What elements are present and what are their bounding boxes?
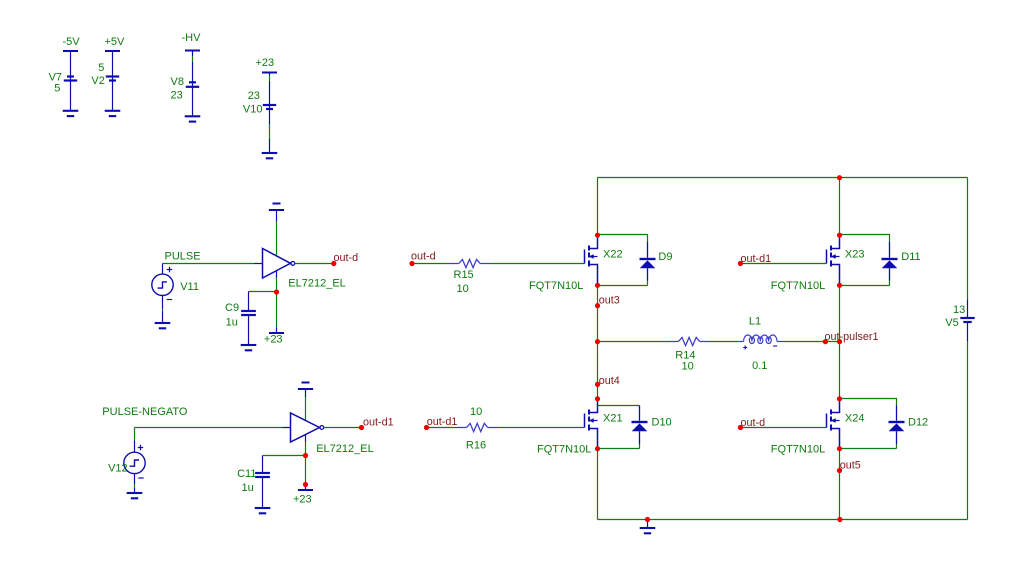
svg-text:V10: V10 (243, 104, 263, 116)
wire (134, 473, 136, 493)
op-amp U1 EL7212_EL (263, 249, 346, 290)
svg-text:out-d: out-d (411, 251, 436, 263)
wire (324, 427, 362, 429)
inductor L1 (739, 316, 784, 372)
wire (162, 295, 164, 323)
wire D10 bottom (639, 431, 641, 444)
svg-text:PULSE-NEGATO: PULSE-NEGATO (102, 406, 188, 418)
wire (412, 263, 585, 265)
svg-text:10: 10 (682, 361, 694, 373)
svg-text:V11: V11 (180, 281, 199, 293)
wire (276, 210, 278, 221)
svg-text:23: 23 (171, 90, 183, 102)
svg-text:V5: V5 (945, 317, 958, 329)
wire (135, 428, 283, 442)
svg-text:X22: X22 (603, 249, 623, 261)
svg-text:FQT7N10L: FQT7N10L (537, 443, 591, 455)
svg-text:FQT7N10L: FQT7N10L (771, 280, 825, 292)
wire (427, 427, 585, 429)
wire right middle (839, 286, 841, 400)
svg-text:R16: R16 (466, 440, 486, 452)
svg-text:out-pulser1: out-pulser1 (825, 331, 879, 343)
power terminal +23 (264, 333, 284, 346)
ground (63, 111, 79, 116)
svg-text:R15: R15 (454, 269, 474, 281)
svg-text:X23: X23 (845, 249, 865, 261)
wire left middle (597, 286, 599, 400)
svg-text:X24: X24 (845, 412, 865, 424)
svg-text:out4: out4 (599, 375, 620, 387)
capacitor C11 (237, 468, 270, 494)
svg-text:D12: D12 (908, 416, 928, 428)
battery V7 (49, 72, 78, 95)
ground (262, 153, 278, 158)
svg-text:C9: C9 (225, 302, 239, 314)
transistor X23 (827, 235, 865, 285)
svg-text:out5: out5 (840, 459, 861, 471)
wire (741, 427, 827, 429)
svg-text:5: 5 (54, 82, 60, 94)
svg-text:V12: V12 (108, 462, 128, 474)
battery V2 (91, 62, 119, 87)
resistor R15 (448, 259, 491, 295)
diode D11 (882, 251, 921, 268)
wire (248, 315, 250, 345)
wire D11 top (840, 235, 890, 243)
svg-text:D9: D9 (658, 251, 672, 263)
battery V8 (171, 76, 200, 102)
wire left top (597, 178, 599, 236)
wire (262, 477, 264, 508)
svg-text:10: 10 (457, 283, 469, 295)
wire bottom rail (598, 519, 968, 521)
resistor R14 (669, 337, 711, 372)
svg-text:V2: V2 (91, 75, 104, 87)
wire (305, 434, 307, 441)
wire D10 top (598, 405, 640, 407)
svg-text:EL7212_EL: EL7212_EL (288, 278, 346, 290)
svg-text:+5V: +5V (105, 36, 126, 48)
resistor R16 (456, 406, 498, 452)
diode D12 (889, 416, 929, 431)
svg-text:D10: D10 (652, 416, 672, 428)
wire top rail (598, 177, 968, 179)
svg-text:+23: +23 (293, 494, 312, 506)
svg-text:5: 5 (98, 62, 104, 74)
svg-text:23: 23 (248, 90, 260, 102)
wire D12 bottom (896, 431, 898, 444)
wire far right (967, 178, 969, 520)
svg-text:out3: out3 (599, 295, 620, 307)
wire (70, 51, 72, 111)
ground (241, 345, 257, 350)
wire (305, 389, 307, 397)
transistor X21 (585, 399, 623, 449)
wire (163, 263, 255, 265)
wire (276, 271, 278, 278)
ground (155, 323, 171, 328)
svg-text:L1: L1 (749, 316, 761, 328)
power terminal +23 (256, 57, 278, 73)
transistor X22 (585, 235, 623, 285)
ground (185, 116, 201, 121)
wire (112, 51, 114, 111)
wire (741, 263, 827, 265)
wire ground stub (647, 520, 649, 529)
wire D9 bottom (647, 268, 649, 280)
power terminal -HV (182, 32, 202, 51)
ground (105, 111, 121, 116)
svg-text:+23: +23 (256, 57, 275, 69)
capacitor C9 (225, 302, 256, 329)
svg-text:10: 10 (470, 406, 482, 418)
svg-text:13: 13 (953, 304, 965, 316)
source V11 (152, 267, 199, 300)
svg-text:C11: C11 (237, 468, 256, 480)
ground (127, 493, 143, 498)
svg-text:1u: 1u (226, 316, 238, 328)
wire D9 top (598, 235, 648, 243)
battery V5 (945, 304, 974, 329)
source V12 (108, 445, 145, 478)
svg-text:out-d: out-d (334, 252, 359, 264)
svg-text:V8: V8 (171, 76, 184, 88)
wire right bottom (839, 449, 841, 520)
wire right top (839, 178, 841, 236)
wire middle net (598, 341, 840, 343)
svg-text:EL7212_EL: EL7212_EL (316, 443, 374, 455)
power terminal +23 (293, 490, 313, 506)
ground (640, 528, 656, 533)
op-amp U2 EL7212_EL (291, 413, 374, 455)
diode D9 (640, 251, 673, 268)
diode D10 (632, 416, 672, 431)
svg-text:1u: 1u (242, 482, 254, 494)
battery V10 (243, 90, 276, 115)
svg-text:FQT7N10L: FQT7N10L (771, 443, 825, 455)
wire (269, 73, 271, 154)
svg-text:D11: D11 (901, 251, 920, 263)
wire (263, 455, 306, 457)
svg-text:out-d1: out-d1 (363, 417, 394, 429)
svg-text:+23: +23 (264, 334, 283, 346)
wire (192, 51, 194, 117)
svg-text:-HV: -HV (182, 32, 202, 44)
wire D11 bottom (889, 268, 891, 280)
svg-text:0.1: 0.1 (752, 360, 767, 372)
transistor X24 (827, 399, 865, 449)
svg-text:-5V: -5V (63, 36, 81, 48)
svg-text:out-d1: out-d1 (427, 416, 458, 428)
wire (249, 291, 277, 293)
svg-text:PULSE: PULSE (165, 250, 201, 262)
svg-text:FQT7N10L: FQT7N10L (529, 280, 583, 292)
ground (255, 508, 271, 513)
inverted ground (op-amp 2 top) (298, 383, 313, 390)
inverted ground (op-amp 1 top) (269, 204, 284, 211)
power terminal -5V (63, 36, 81, 51)
wire left bottom (597, 449, 599, 520)
wire (295, 263, 334, 265)
wire D12 top (840, 399, 897, 406)
svg-text:X21: X21 (603, 412, 623, 424)
power terminal +5V (105, 36, 126, 51)
